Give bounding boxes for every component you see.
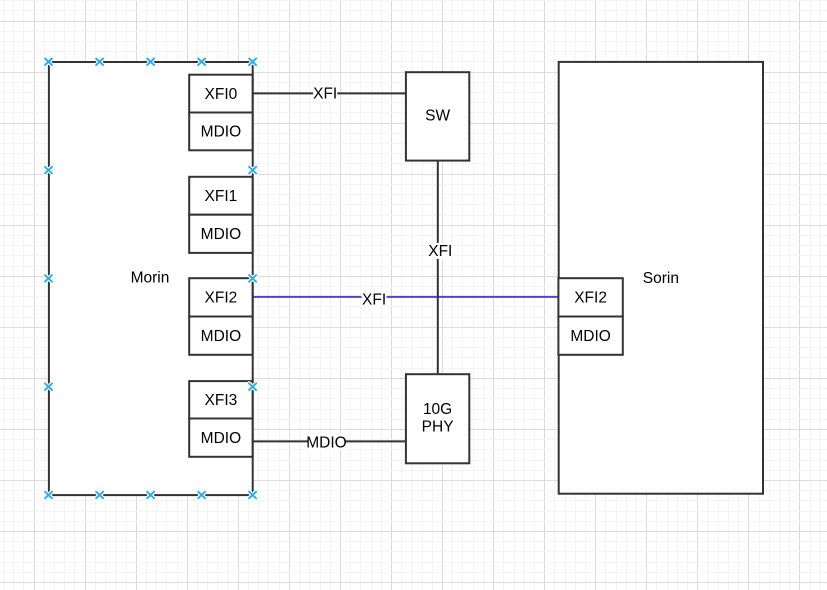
svg-text:XFI: XFI	[428, 243, 452, 260]
svg-text:MDIO: MDIO	[201, 226, 241, 243]
svg-text:XFI: XFI	[313, 86, 337, 103]
svg-text:MDIO: MDIO	[306, 435, 346, 452]
svg-text:MDIO: MDIO	[201, 328, 241, 345]
svg-text:SW: SW	[425, 108, 450, 125]
svg-text:XFI0: XFI0	[205, 86, 238, 103]
svg-text:MDIO: MDIO	[201, 430, 241, 447]
svg-text:Morin: Morin	[131, 270, 170, 287]
svg-text:XFI2: XFI2	[574, 290, 607, 307]
svg-text:PHY: PHY	[422, 418, 454, 435]
svg-text:Sorin: Sorin	[643, 270, 679, 287]
svg-text:XFI2: XFI2	[205, 290, 238, 307]
svg-text:XFI: XFI	[362, 291, 386, 308]
svg-text:MDIO: MDIO	[570, 328, 610, 345]
svg-text:XFI1: XFI1	[205, 188, 238, 205]
svg-text:10G: 10G	[423, 401, 452, 418]
svg-text:XFI3: XFI3	[205, 392, 238, 409]
svg-text:MDIO: MDIO	[201, 124, 241, 141]
